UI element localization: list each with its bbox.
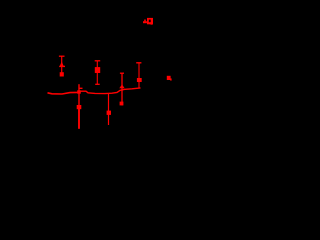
wire bus left segment bbox=[48, 92, 79, 94]
diode D1 bbox=[119, 73, 124, 105]
current source I1 bbox=[59, 56, 65, 76]
voltage source V1 bbox=[95, 61, 101, 85]
resistor R2 bbox=[77, 105, 82, 109]
net label A bbox=[167, 76, 172, 81]
junction node B bbox=[77, 90, 81, 93]
label triangle marker bbox=[143, 20, 147, 24]
resistor R1 bbox=[107, 94, 111, 126]
label Q bbox=[147, 18, 153, 25]
wire vertical branch at node B bbox=[79, 84, 83, 129]
wire bus right segment bbox=[79, 88, 141, 94]
capacitor C1 bbox=[136, 63, 142, 89]
